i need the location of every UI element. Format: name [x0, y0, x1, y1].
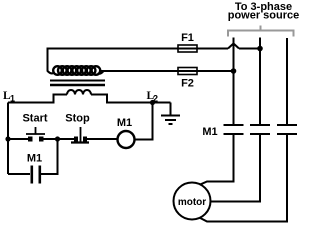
svg-text:M1: M1	[27, 153, 42, 165]
svg-text:power source: power source	[228, 10, 300, 22]
svg-text:F1: F1	[181, 32, 194, 44]
svg-text:2: 2	[153, 94, 158, 104]
svg-text:M1: M1	[117, 117, 132, 129]
svg-text:Start: Start	[22, 113, 47, 125]
svg-text:Stop: Stop	[65, 113, 90, 125]
svg-text:1: 1	[10, 94, 15, 104]
svg-text:F2: F2	[181, 78, 194, 90]
svg-text:motor: motor	[178, 197, 206, 208]
svg-text:M1: M1	[202, 126, 217, 138]
